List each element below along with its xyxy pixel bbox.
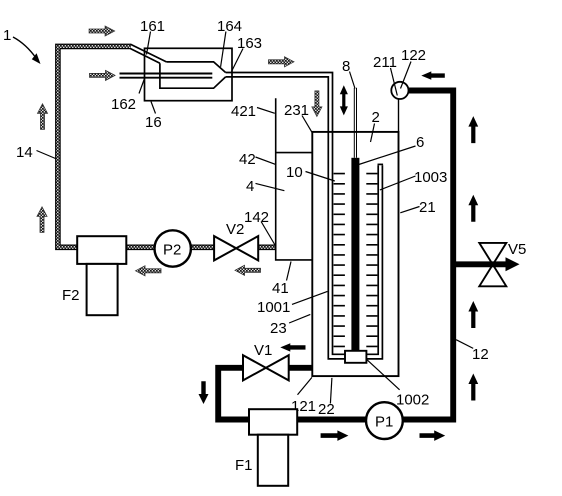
- svg-text:231: 231: [284, 102, 309, 119]
- svg-text:2: 2: [372, 109, 380, 126]
- svg-text:F1: F1: [235, 457, 253, 474]
- svg-text:162: 162: [111, 96, 136, 113]
- flow arrow above outlet pipe (gray): [269, 57, 295, 67]
- wire P2 to V2 (textured pipe): [191, 245, 215, 251]
- fins 10 (heating fins rows): [286, 164, 377, 346]
- svg-text:P1: P1: [375, 414, 393, 431]
- flow right riser arrow 2 (black up): [468, 195, 478, 222]
- svg-text:164: 164: [217, 18, 242, 35]
- svg-text:V5: V5: [508, 241, 526, 258]
- flow arrow bottom before P1 (black right): [321, 430, 349, 441]
- svg-text:122: 122: [401, 47, 426, 64]
- svg-text:6: 6: [416, 134, 424, 151]
- svg-text:8: 8: [342, 58, 350, 75]
- flow arrow down bottom-left (black): [199, 381, 209, 404]
- svg-text:V1: V1: [254, 342, 272, 359]
- svg-text:41: 41: [272, 280, 289, 297]
- valve V1: [243, 342, 289, 380]
- chamber 23 label: [270, 314, 310, 337]
- chamber 4 with wall 421: [231, 98, 312, 297]
- wire V1 to vessel: [289, 365, 313, 371]
- tube 1003 label: [380, 169, 448, 190]
- flow right riser arrow 3 (black up): [468, 301, 478, 328]
- node 1 (system reference arrow): [3, 27, 41, 64]
- heat exchanger box 16: [145, 48, 233, 131]
- pipe 161 (diagonal feed into jacket): [131, 18, 167, 63]
- wall 21 riser to valve 122: [399, 99, 436, 216]
- heater rod 6: [351, 134, 424, 351]
- pipe 1001 label: [257, 291, 327, 316]
- filter F1: [235, 409, 297, 486]
- flow arrow down into vessel (gray): [312, 91, 322, 117]
- pump P1: [366, 402, 403, 439]
- svg-text:1003: 1003: [414, 169, 447, 186]
- wire V2 to chamber 41 (textured pipe): [257, 245, 275, 251]
- svg-text:1001: 1001: [257, 299, 290, 316]
- svg-text:23: 23: [270, 320, 287, 337]
- node 231 (vessel inlet): [284, 102, 313, 133]
- pipe 162 (inner tube): [111, 74, 212, 114]
- svg-text:211: 211: [373, 54, 397, 71]
- flow arrow bottom after P1 (black right): [420, 430, 446, 441]
- wire 14 main loop (textured pipe): [58, 46, 131, 247]
- node 22 label: [318, 378, 335, 418]
- filter F2: [62, 236, 126, 315]
- svg-text:4: 4: [246, 178, 254, 195]
- svg-text:142: 142: [244, 209, 269, 226]
- svg-text:12: 12: [472, 346, 489, 363]
- wire 14 label: [16, 144, 56, 161]
- block 1002 (rod base): [345, 351, 429, 409]
- svg-text:F2: F2: [62, 287, 80, 304]
- wire F2 to P2 (textured pipe): [126, 245, 155, 251]
- valve 122 (circle) with port 211: [373, 47, 426, 99]
- wire: exchanger outlet pipe + downcomer 1001 + bottom channel + tube 1003: [226, 73, 384, 359]
- valve V2: [214, 221, 258, 260]
- wire to V5 with outlet arrow: [455, 257, 520, 271]
- svg-text:21: 21: [419, 199, 436, 216]
- svg-text:22: 22: [318, 401, 335, 418]
- flow arrow into pipe 162 (gray): [90, 70, 116, 80]
- svg-text:42: 42: [239, 151, 256, 168]
- svg-text:1002: 1002: [396, 392, 429, 409]
- flow arrow into valve 122 (black left): [421, 71, 445, 79]
- flow arrow up left upper (gray): [38, 104, 48, 130]
- svg-text:16: 16: [145, 114, 162, 131]
- vessel 2 (outer tank): [312, 109, 398, 376]
- tube 8 (thin sensor tube): [342, 58, 357, 158]
- svg-text:P2: P2: [163, 242, 181, 259]
- flow right riser arrow 4 (black up): [468, 374, 478, 401]
- svg-text:163: 163: [237, 35, 262, 52]
- top-left flow arrow (gray): [89, 26, 115, 36]
- flow arrow V2 (gray): [235, 265, 261, 275]
- jacket 164 with nozzle 163: [160, 18, 262, 88]
- pump P2: [155, 230, 191, 266]
- node 121 label: [291, 377, 316, 415]
- svg-text:10: 10: [286, 164, 303, 181]
- flow arrow up left lower (gray): [37, 207, 47, 233]
- svg-text:1: 1: [3, 27, 11, 44]
- double-headed arrow above vessel: [340, 85, 348, 115]
- svg-text:V2: V2: [226, 221, 244, 238]
- svg-text:161: 161: [140, 18, 165, 35]
- wire 12 (thick recirculation loop): [218, 91, 488, 420]
- svg-text:14: 14: [16, 144, 33, 161]
- flow arrow F2-P2 (gray): [136, 266, 162, 276]
- flow right riser arrow 1 (black up): [468, 116, 478, 143]
- svg-text:421: 421: [231, 103, 256, 120]
- valve V5: [479, 241, 526, 286]
- flow arrow into V1 (black left): [280, 343, 305, 351]
